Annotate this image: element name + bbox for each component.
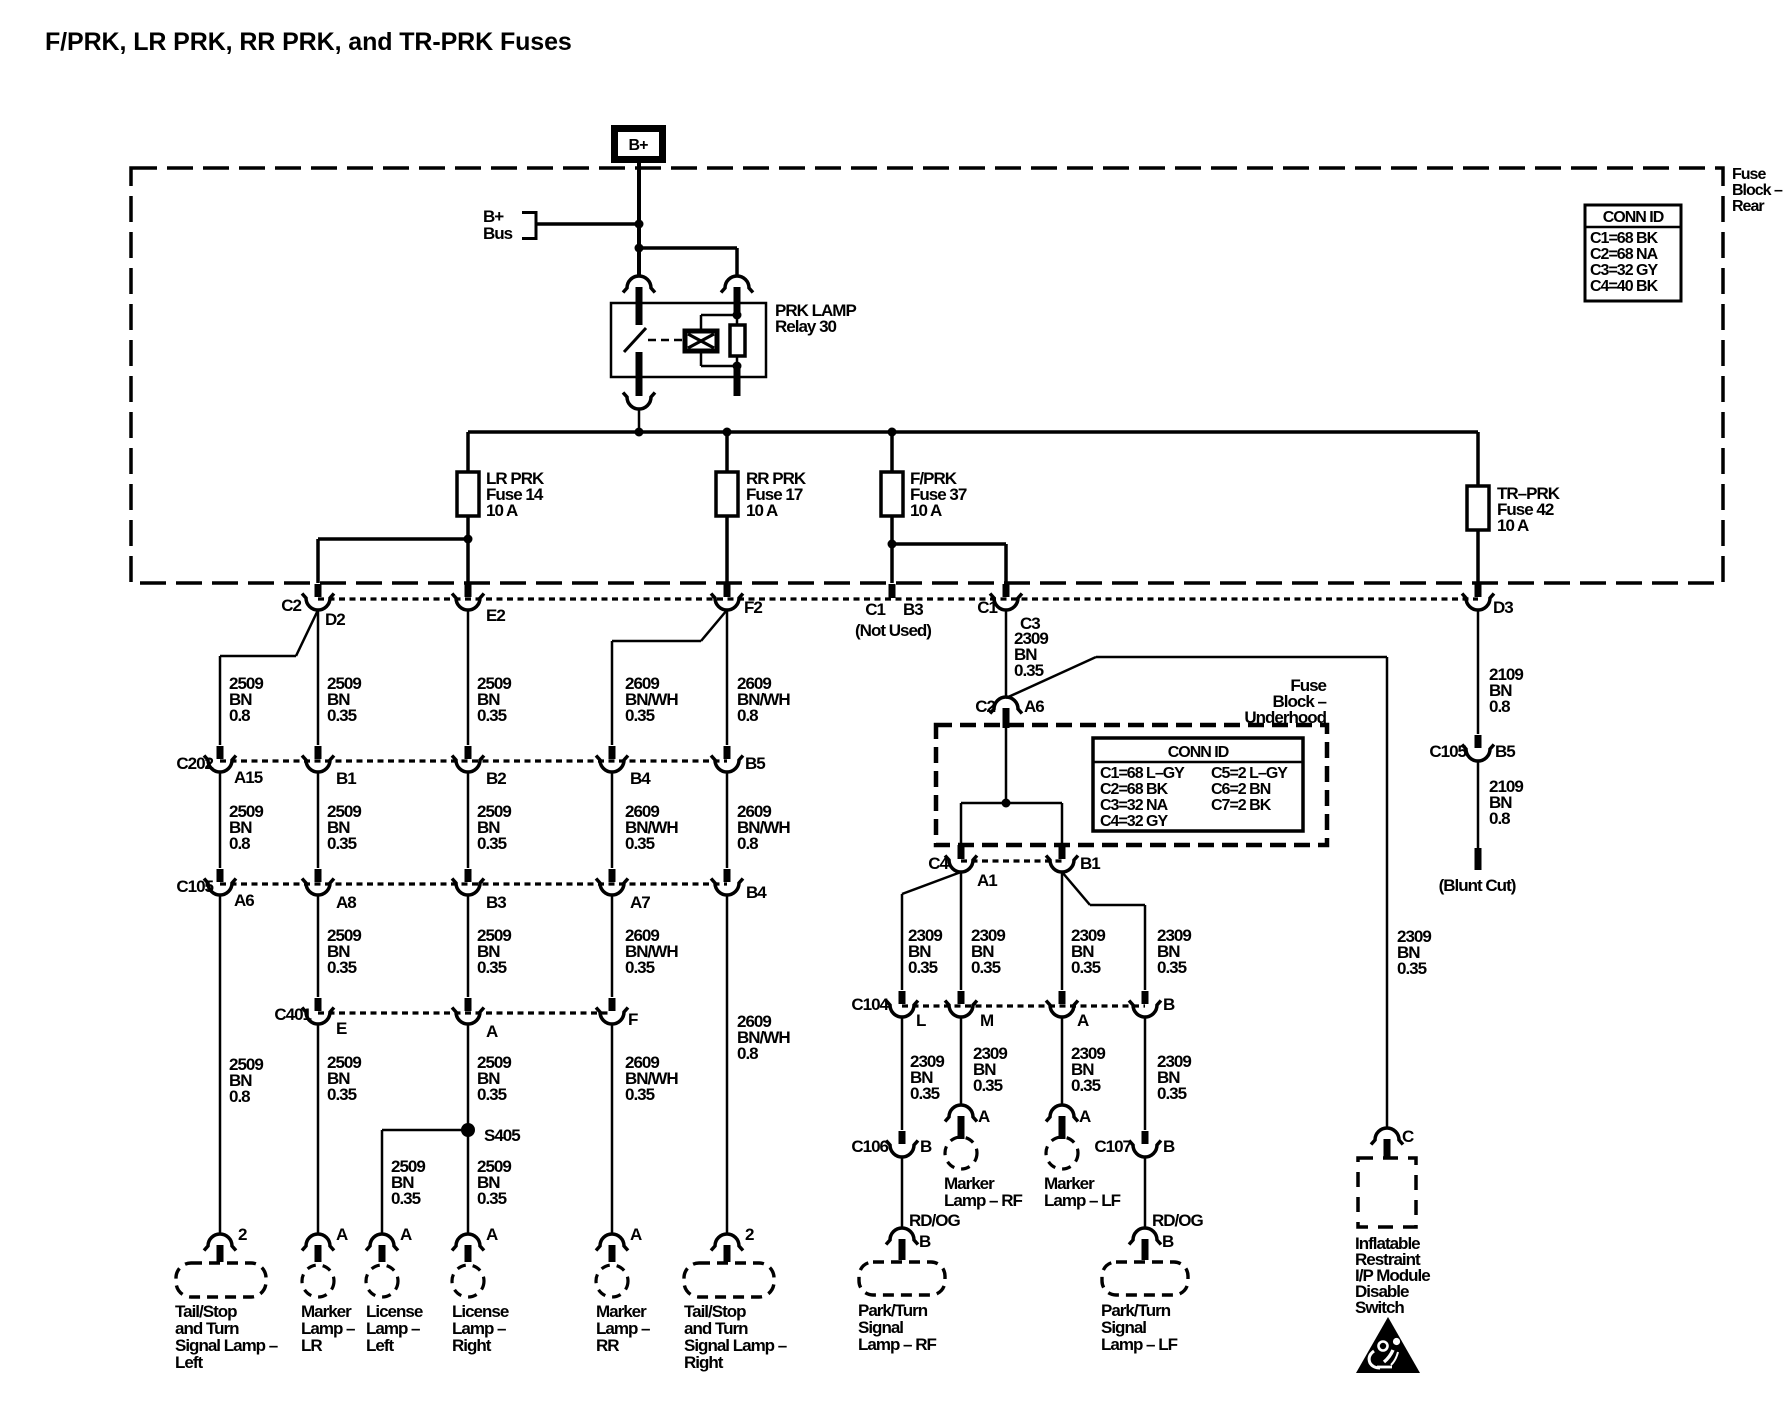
- inflatable restraint I/P module disable switch outline: [1358, 1158, 1416, 1227]
- svg-text:C4: C4: [928, 854, 949, 873]
- caption Tail/Stop and Turn Signal Lamp - Left: [175, 1302, 278, 1372]
- svg-text:Underhood: Underhood: [1244, 708, 1326, 727]
- caption Park/Turn Signal Lamp - LF: [1101, 1301, 1178, 1354]
- connector C104 terminal A: [1046, 991, 1078, 1017]
- svg-text:0.35: 0.35: [1014, 661, 1044, 680]
- caption Marker Lamp - RR: [596, 1302, 650, 1355]
- svg-text:B+: B+: [629, 137, 649, 154]
- svg-text:0.35: 0.35: [625, 834, 655, 853]
- wire feed bus to fuses: [468, 430, 1478, 434]
- label 2309 BN 0.35: [1071, 926, 1105, 977]
- connector terminal D3: [1462, 584, 1494, 610]
- splice S405: [461, 1123, 475, 1137]
- label 2309 BN 0.35: [1157, 926, 1191, 977]
- svg-text:0.35: 0.35: [477, 1085, 507, 1104]
- svg-text:A: A: [336, 1225, 348, 1244]
- label 2309 BN 0.35: [908, 926, 942, 977]
- svg-text:0.35: 0.35: [327, 834, 357, 853]
- label 2609 BN/WH 0.35: [625, 674, 678, 725]
- svg-text:B: B: [920, 1137, 932, 1156]
- wire E2 to B2 (2509 BN 0.35): [467, 610, 470, 745]
- wire tap to inflatable restraint disable switch: [1006, 657, 1387, 1128]
- svg-text:0.35: 0.35: [1071, 958, 1101, 977]
- wire A15 to A6 (2509 BN 0.8): [219, 772, 222, 868]
- relay resistor: [730, 316, 745, 366]
- wire A to splice S405 (2509 BN 0.35): [467, 1024, 470, 1233]
- relay coil (box with X): [685, 331, 717, 351]
- park/turn signal lamp - LF outline: [1102, 1262, 1188, 1295]
- svg-text:Lamp – LF: Lamp – LF: [1101, 1335, 1178, 1354]
- connector C2 terminal A6 (underhood): [990, 697, 1022, 728]
- CONN ID table (fuse block rear): [1585, 205, 1681, 301]
- wire B4 to A7 (2609 BN/WH 0.35): [611, 772, 614, 868]
- connector C105 terminal B4: [711, 869, 743, 895]
- svg-text:B1: B1: [336, 769, 356, 788]
- relay coil pin bottom stub: [734, 366, 741, 396]
- connector C105 dotted line: [220, 882, 727, 885]
- connector C104 terminal B: [1129, 991, 1161, 1017]
- wire C106 to park/turn lamp RF (RD/OG): [901, 1157, 904, 1228]
- svg-text:C1: C1: [977, 598, 997, 617]
- wire bus to F/PRK fuse: [890, 432, 894, 472]
- label 2609 BN/WH 0.8: [737, 674, 790, 725]
- svg-text:B4: B4: [746, 883, 767, 902]
- label TR-PRK Fuse 42 10 A: [1497, 484, 1561, 535]
- svg-text:RR: RR: [596, 1336, 619, 1355]
- svg-text:S405: S405: [484, 1126, 520, 1145]
- wire A7 to F (2609 BN/WH 0.35): [611, 895, 614, 997]
- svg-text:Lamp – RF: Lamp – RF: [858, 1335, 937, 1354]
- svg-text:0.35: 0.35: [625, 1085, 655, 1104]
- terminal B3 not used stub: [889, 584, 896, 598]
- label 2509 BN 0.8: [229, 802, 263, 853]
- connector C107 terminal B: [1129, 1131, 1161, 1157]
- connector C202 terminal B1: [302, 746, 334, 772]
- wire F2 to B5 (2609 BN/WH 0.8): [726, 610, 729, 745]
- wire B1 to A8 (2509 BN 0.35): [317, 772, 320, 868]
- svg-text:0.35: 0.35: [1157, 958, 1187, 977]
- svg-text:Fuse: Fuse: [1732, 166, 1766, 183]
- wire B5 to blunt cut (2109 BN 0.8): [1477, 761, 1480, 848]
- relay coil pin top connector: [721, 276, 753, 316]
- svg-text:RD/OG: RD/OG: [909, 1211, 961, 1230]
- wire LR PRK fuse to E2: [466, 516, 470, 583]
- svg-text:Left: Left: [366, 1336, 395, 1355]
- svg-text:Right: Right: [684, 1353, 724, 1372]
- caption Park/Turn Signal Lamp - RF: [858, 1301, 937, 1354]
- svg-text:C1=68 BK: C1=68 BK: [1590, 230, 1659, 247]
- svg-text:0.35: 0.35: [327, 1085, 357, 1104]
- svg-text:A: A: [1079, 1107, 1091, 1126]
- wire bus to RR PRK fuse: [725, 432, 729, 472]
- svg-text:C2=68 BK: C2=68 BK: [1100, 781, 1169, 798]
- wire C1 to C2/A6 (2309 BN 0.35): [1005, 610, 1008, 697]
- svg-text:0.35: 0.35: [910, 1084, 940, 1103]
- fuse block - underhood dashed outline: [936, 725, 1327, 845]
- wire B1 to C104 B (2309 BN 0.35): [1062, 872, 1145, 990]
- svg-text:A6: A6: [234, 891, 254, 910]
- wire C104 M to marker lamp RF (2309 BN 0.35): [960, 1017, 963, 1105]
- svg-text:C5=2 L–GY: C5=2 L–GY: [1211, 765, 1288, 782]
- connector C1 terminal for C3 harness: [990, 584, 1022, 610]
- connector C106 terminal B: [886, 1131, 918, 1157]
- wire C104 B to C107 (2309 BN 0.35): [1144, 1017, 1147, 1130]
- svg-text:Lamp – RF: Lamp – RF: [944, 1191, 1023, 1210]
- connector C401 dotted line: [318, 1011, 612, 1014]
- wire relay output to bus: [638, 409, 641, 432]
- relay switch contact: [624, 303, 646, 396]
- svg-text:A15: A15: [234, 768, 263, 787]
- label 2509 BN 0.35: [327, 1053, 361, 1104]
- wire D2 to A15 (2509 BN 0.8): [220, 610, 318, 745]
- svg-text:0.35: 0.35: [391, 1189, 421, 1208]
- svg-text:0.35: 0.35: [1157, 1084, 1187, 1103]
- svg-text:0.35: 0.35: [971, 958, 1001, 977]
- label 2509 BN 0.8: [229, 1055, 263, 1106]
- svg-text:Lamp – LF: Lamp – LF: [1044, 1191, 1121, 1210]
- caption Marker Lamp - LR: [301, 1302, 355, 1355]
- label 2509 BN 0.35: [477, 1157, 511, 1208]
- wire branch to terminal D2: [318, 539, 468, 583]
- label 2309 BN 0.35: [973, 1044, 1007, 1095]
- SIR caution symbol: [1356, 1317, 1420, 1373]
- relay PRK LAMP Relay 30 box: [611, 303, 766, 377]
- label 2509 BN 0.8: [229, 674, 263, 725]
- wire C104 A to marker lamp LF (2309 BN 0.35): [1061, 1017, 1064, 1105]
- svg-text:Bus: Bus: [483, 224, 513, 243]
- junction coil bottom: [733, 362, 742, 371]
- label 2109 BN 0.8: [1489, 777, 1523, 828]
- svg-text:B2: B2: [486, 769, 506, 788]
- svg-text:B5: B5: [1495, 742, 1515, 761]
- wire inside underhood fuse block: [961, 728, 1062, 844]
- marker lamp - LR outline: [302, 1265, 334, 1297]
- connector C202 terminal A15: [204, 746, 236, 772]
- wire branch F/PRK to C1: [892, 544, 1006, 583]
- svg-text:M: M: [980, 1011, 994, 1030]
- marker lamp - LF outline: [1046, 1137, 1078, 1169]
- svg-text:10 A: 10 A: [910, 501, 942, 520]
- wire B5 to B4 (2609 BN/WH 0.8): [726, 772, 729, 868]
- svg-text:B: B: [919, 1232, 931, 1251]
- svg-text:A: A: [400, 1225, 412, 1244]
- wire B4 to tail lamp right (2609 BN/WH 0.8): [726, 895, 729, 1233]
- connector C105 terminal A7: [596, 869, 628, 895]
- marker lamp LF connector terminal A: [1046, 1105, 1078, 1139]
- svg-text:0.8: 0.8: [1489, 809, 1510, 828]
- caption Marker Lamp - RF: [944, 1174, 1023, 1210]
- svg-text:0.35: 0.35: [327, 706, 357, 725]
- license lamp - left outline: [366, 1265, 398, 1297]
- svg-text:A6: A6: [1024, 697, 1044, 716]
- svg-text:B: B: [1163, 1137, 1175, 1156]
- svg-text:LR: LR: [301, 1336, 322, 1355]
- svg-text:C2: C2: [975, 697, 995, 716]
- wire F to marker lamp RR (2609 BN/WH 0.35): [611, 1024, 614, 1233]
- svg-text:C2: C2: [281, 596, 301, 615]
- label 2609 BN/WH 0.8: [737, 1012, 790, 1063]
- lamp connector terminal A: [302, 1234, 334, 1262]
- svg-text:Block –: Block –: [1732, 182, 1783, 199]
- svg-text:E2: E2: [486, 606, 505, 625]
- connector C202 dotted line: [220, 759, 727, 762]
- svg-text:C4=32 GY: C4=32 GY: [1100, 813, 1168, 830]
- connector C202 terminal B4: [596, 746, 628, 772]
- relay actuating dashed link: [648, 339, 684, 342]
- svg-text:C2=68 NA: C2=68 NA: [1590, 246, 1659, 263]
- svg-text:0.35: 0.35: [625, 958, 655, 977]
- caption License Lamp - Left: [366, 1302, 423, 1355]
- blunt cut wire end: [1475, 848, 1482, 870]
- connector terminal E2: [452, 584, 484, 610]
- junction relay coil branch: [635, 244, 644, 253]
- label 2609 BN/WH 0.35: [625, 926, 678, 977]
- fuse F/PRK Fuse 37: [881, 472, 903, 516]
- lamp connector terminal A: [596, 1234, 628, 1262]
- wire TR-PRK fuse to D3: [1476, 530, 1480, 583]
- svg-text:A: A: [486, 1022, 498, 1041]
- connector C4 terminal A1: [945, 845, 977, 872]
- svg-text:Right: Right: [452, 1336, 492, 1355]
- fuse block - rear dashed outline: [131, 168, 1723, 583]
- label 2509 BN 0.35: [327, 926, 361, 977]
- svg-text:C106: C106: [851, 1137, 888, 1156]
- wire C107 to park/turn lamp LF (RD/OG): [1144, 1157, 1147, 1228]
- svg-text:0.35: 0.35: [1071, 1076, 1101, 1095]
- label 2309 BN 0.35: [1071, 1044, 1105, 1095]
- connector row dotted line (rear fuse block): [318, 597, 1478, 600]
- svg-text:10 A: 10 A: [746, 501, 778, 520]
- wire B+ bus tap: [536, 222, 639, 226]
- svg-text:0.35: 0.35: [477, 706, 507, 725]
- svg-text:0.8: 0.8: [737, 1044, 758, 1063]
- relay switch output connector: [623, 393, 655, 410]
- svg-text:0.35: 0.35: [327, 958, 357, 977]
- svg-text:2: 2: [745, 1225, 754, 1244]
- label 2509 BN 0.35: [477, 674, 511, 725]
- wire E to marker lamp LR (2509 BN 0.35): [317, 1024, 320, 1233]
- relay switch pin top connector: [623, 276, 655, 304]
- label 2509 BN 0.35: [477, 1053, 511, 1104]
- label 2509 BN 0.35: [477, 802, 511, 853]
- wire A1 to C104 L (2309 BN 0.35): [902, 872, 961, 990]
- svg-text:B: B: [1162, 1232, 1174, 1251]
- svg-text:C105: C105: [1429, 742, 1466, 761]
- junction LR PRK branch: [464, 535, 473, 544]
- junction bus at relay: [635, 428, 644, 437]
- B+ power symbol: [611, 125, 666, 163]
- wire B1 to C104 A (2309 BN 0.35): [1061, 872, 1064, 990]
- svg-text:Switch: Switch: [1355, 1298, 1404, 1317]
- svg-text:0.8: 0.8: [737, 834, 758, 853]
- svg-text:A8: A8: [336, 893, 356, 912]
- svg-text:0.35: 0.35: [477, 1189, 507, 1208]
- lamp connector terminal A: [366, 1234, 398, 1262]
- label RR PRK Fuse 17 10 A: [746, 469, 807, 520]
- wire RR PRK fuse to F2: [725, 516, 729, 583]
- svg-text:(Not Used): (Not Used): [855, 621, 931, 640]
- connector C401 terminal A: [452, 998, 484, 1024]
- svg-text:Rear: Rear: [1732, 198, 1764, 215]
- label 2309 BN 0.35 (switch feed): [1397, 927, 1431, 978]
- caption Tail/Stop and Turn Signal Lamp - Right: [684, 1302, 787, 1372]
- svg-text:A: A: [630, 1225, 642, 1244]
- svg-text:D2: D2: [325, 610, 345, 629]
- wire S405 branch to license lamp left: [382, 1130, 468, 1233]
- connector C4 dotted line: [961, 859, 1062, 862]
- svg-text:C3=32 NA: C3=32 NA: [1100, 797, 1169, 814]
- wire bus to TR-PRK fuse: [1476, 432, 1480, 486]
- svg-text:B1: B1: [1080, 854, 1100, 873]
- label 2309 BN 0.35: [910, 1052, 944, 1103]
- svg-text:A: A: [1077, 1011, 1089, 1030]
- svg-text:D3: D3: [1493, 598, 1513, 617]
- wire bus to LR PRK fuse: [466, 432, 470, 472]
- connector C105 terminal B3: [452, 869, 484, 895]
- svg-text:F/PRK, LR PRK, RR PRK, and TR-: F/PRK, LR PRK, RR PRK, and TR-PRK Fuses: [45, 28, 572, 56]
- svg-text:C4=40 BK: C4=40 BK: [1590, 278, 1659, 295]
- wire A8 to E (2509 BN 0.35): [317, 895, 320, 997]
- junction bus at RR PRK: [723, 428, 732, 437]
- label 2309 BN 0.35: [1157, 1052, 1191, 1103]
- wire branch to relay coil pin: [639, 248, 737, 276]
- svg-text:A: A: [486, 1225, 498, 1244]
- tail/stop and turn signal lamp - right outline: [684, 1263, 774, 1297]
- wire D2 to B1 (2509 BN 0.35): [317, 610, 320, 745]
- label 2509 BN 0.35: [327, 802, 361, 853]
- label B+ Bus with bracket: [483, 207, 536, 243]
- svg-text:B4: B4: [630, 769, 651, 788]
- label 2509 BN 0.35: [327, 674, 361, 725]
- label 2509 BN 0.35: [391, 1157, 425, 1208]
- svg-text:C7=2 BK: C7=2 BK: [1211, 797, 1272, 814]
- wire F/PRK fuse to B3 not used: [890, 516, 894, 583]
- svg-text:0.8: 0.8: [229, 1087, 250, 1106]
- wire B2 to B3 (2509 BN 0.35): [467, 772, 470, 868]
- connector C104 terminal M: [945, 991, 977, 1017]
- connector C401 terminal E: [302, 998, 334, 1024]
- caption License Lamp - Right: [452, 1302, 509, 1355]
- connector C105 terminal A6: [204, 869, 236, 895]
- svg-text:10 A: 10 A: [1497, 516, 1529, 535]
- wire C104 L to C106 (2309 BN 0.35): [901, 1017, 904, 1130]
- wire A6 to tail lamp left (2509 BN 0.8): [219, 895, 222, 1233]
- svg-text:2: 2: [238, 1225, 247, 1244]
- svg-text:0.35: 0.35: [477, 958, 507, 977]
- wire A1 to C104 M (2309 BN 0.35): [960, 872, 963, 990]
- svg-text:B3: B3: [903, 600, 923, 619]
- caption Marker Lamp - LF: [1044, 1174, 1121, 1210]
- svg-text:B5: B5: [745, 754, 765, 773]
- park/turn signal lamp - RF outline: [859, 1262, 945, 1295]
- label 2609 BN/WH 0.35: [625, 802, 678, 853]
- tail/stop and turn signal lamp - left outline: [176, 1263, 266, 1297]
- svg-text:C107: C107: [1094, 1137, 1131, 1156]
- svg-text:0.8: 0.8: [229, 706, 250, 725]
- svg-text:C1=68 L–GY: C1=68 L–GY: [1100, 765, 1185, 782]
- svg-text:0.8: 0.8: [737, 706, 758, 725]
- connector C105 terminal B5 (right): [1462, 735, 1494, 761]
- inflatable restraint switch connector terminal C: [1371, 1128, 1403, 1157]
- svg-text:B: B: [1163, 995, 1175, 1014]
- label 2309 BN 0.35: [971, 926, 1005, 977]
- marker lamp RF connector terminal A: [945, 1105, 977, 1139]
- fuse LR PRK Fuse 14: [457, 472, 479, 516]
- label Fuse Block - Underhood: [1244, 676, 1326, 727]
- wire D3 to C105 B5 (2109 BN 0.8): [1477, 610, 1480, 734]
- lamp connector terminal 2: [204, 1234, 236, 1262]
- relay coil wiring loop: [701, 315, 737, 366]
- park/turn lamp RF connector terminal B: [886, 1228, 918, 1260]
- park/turn lamp LF connector terminal B: [1129, 1228, 1161, 1260]
- junction bus at F/PRK: [888, 428, 897, 437]
- svg-text:CONN ID: CONN ID: [1603, 209, 1664, 226]
- svg-text:C3=32 GY: C3=32 GY: [1590, 262, 1658, 279]
- connector C202 terminal B2: [452, 746, 484, 772]
- fuse TR-PRK Fuse 42: [1467, 486, 1489, 530]
- connector terminal F2: [711, 584, 743, 610]
- svg-text:B3: B3: [486, 893, 506, 912]
- label 2609 BN/WH 0.8: [737, 802, 790, 853]
- connector C105 terminal A8: [302, 869, 334, 895]
- marker lamp - RR outline: [596, 1265, 628, 1297]
- label 2509 BN 0.35: [477, 926, 511, 977]
- svg-text:0.35: 0.35: [908, 958, 938, 977]
- svg-text:C1: C1: [865, 600, 885, 619]
- marker lamp - RF outline: [945, 1137, 977, 1169]
- connector C104 terminal L: [886, 991, 918, 1017]
- svg-text:0.35: 0.35: [1397, 959, 1427, 978]
- svg-text:0.35: 0.35: [477, 834, 507, 853]
- connector C4 terminal B1: [1046, 845, 1078, 872]
- junction F/PRK branch: [888, 540, 897, 549]
- license lamp - right outline: [452, 1265, 484, 1297]
- svg-text:0.8: 0.8: [1489, 697, 1510, 716]
- label C1 B3 (Not Used): [855, 600, 931, 640]
- lamp connector terminal 2: [711, 1234, 743, 1262]
- connector C2 terminal D2: [302, 584, 334, 610]
- junction coil top: [733, 311, 742, 320]
- caption Inflatable Restraint I/P Module Disable Switch: [1355, 1234, 1430, 1317]
- svg-text:Relay 30: Relay 30: [775, 317, 837, 336]
- svg-text:C6=2 BN: C6=2 BN: [1211, 781, 1271, 798]
- fuse RR PRK Fuse 17: [716, 472, 738, 516]
- svg-text:RD/OG: RD/OG: [1152, 1211, 1204, 1230]
- svg-text:A: A: [978, 1107, 990, 1126]
- svg-text:A1: A1: [977, 871, 997, 890]
- connector C202 terminal B5: [711, 746, 743, 772]
- wire B+ feed down to relay: [637, 163, 641, 276]
- svg-text:CONN ID: CONN ID: [1168, 744, 1229, 761]
- label 2109 BN 0.8: [1489, 665, 1523, 716]
- label 2609 BN/WH 0.35: [625, 1053, 678, 1104]
- svg-text:E: E: [336, 1019, 347, 1038]
- wire B3 to A (2509 BN 0.35): [467, 895, 470, 997]
- wire F2 to B4 (2609 BN/WH 0.35): [612, 610, 727, 745]
- connector C401 terminal F: [596, 998, 628, 1024]
- junction B+ bus: [635, 220, 644, 229]
- lamp connector terminal A: [452, 1234, 484, 1262]
- junction underhood split: [1002, 799, 1011, 808]
- svg-text:L: L: [916, 1011, 926, 1030]
- label 2309 BN 0.35: [1014, 629, 1048, 680]
- svg-text:F: F: [628, 1010, 638, 1029]
- label PRK LAMP Relay 30: [775, 301, 856, 336]
- label LR PRK Fuse 14 10 A: [486, 469, 545, 520]
- svg-text:0.35: 0.35: [625, 706, 655, 725]
- svg-text:(Blunt Cut): (Blunt Cut): [1439, 876, 1516, 895]
- svg-text:0.35: 0.35: [973, 1076, 1003, 1095]
